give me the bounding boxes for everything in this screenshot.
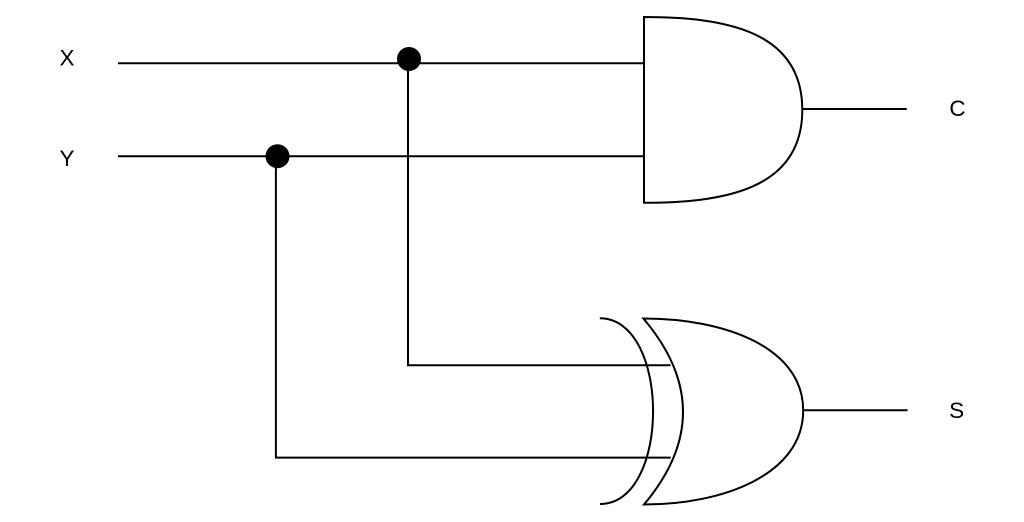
svg-text:Y: Y bbox=[59, 146, 74, 171]
XOR gate U2 body bbox=[643, 319, 803, 505]
wire X input to AND top input bbox=[118, 62, 644, 64]
XOR gate U2 input-side arc bbox=[600, 318, 653, 504]
junction dot on X wire bbox=[398, 48, 420, 70]
wire Y input to AND bottom input bbox=[118, 155, 644, 157]
wire X branch down to XOR top input bbox=[408, 59, 671, 365]
svg-text:S: S bbox=[949, 398, 964, 423]
svg-text:X: X bbox=[59, 46, 74, 71]
junction dot on Y wire bbox=[267, 145, 289, 167]
wire AND output to C bbox=[802, 108, 907, 110]
wire XOR output to S bbox=[803, 409, 908, 411]
svg-text:C: C bbox=[949, 96, 965, 121]
wire Y branch down to XOR bottom input bbox=[276, 156, 671, 457]
AND gate U1 bbox=[644, 17, 802, 203]
